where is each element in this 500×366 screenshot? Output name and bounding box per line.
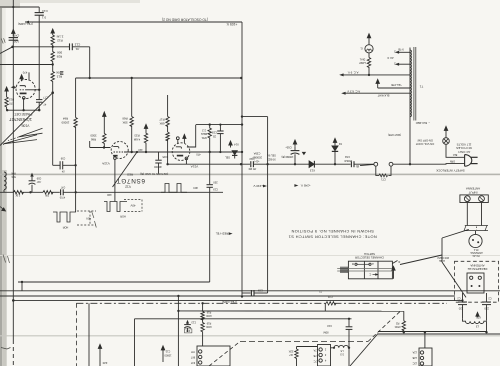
svg-text:1/2-6SN7GT: 1/2-6SN7GT — [9, 117, 32, 122]
antenna receptacle dashed box — [455, 261, 499, 302]
svg-text:50K: 50K — [11, 175, 16, 178]
label V12 — [125, 184, 131, 188]
node junction (295,164.2) — [294, 163, 296, 165]
svg-text:10000: 10000 — [164, 353, 172, 356]
capacitor C9 in rail y164.2 — [250, 161, 252, 167]
label S1 letters — [352, 262, 354, 266]
label YEL-GRN — [18, 22, 33, 26]
label +245V — [300, 183, 310, 187]
label 117 VOLTS — [457, 142, 472, 146]
receptacle body — [467, 273, 484, 293]
waveform sweep sawtooth sketch 1 — [19, 128, 43, 137]
svg-text:0.1: 0.1 — [42, 16, 47, 20]
waveform dashed measure box y210 — [77, 210, 96, 212]
label L3 — [476, 324, 480, 328]
node junction (75.7,192.3) — [75, 191, 77, 193]
svg-text:C47: C47 — [60, 185, 65, 188]
label C2 C2 — [457, 297, 461, 300]
wire vertical x424.9 — [424, 332, 426, 348]
node arrow-up S1 right x393.5 — [392, 266, 395, 272]
svg-text:2.2: 2.2 — [202, 128, 206, 132]
wire rail y290.8 full — [0, 290, 500, 292]
label C39A — [253, 151, 260, 155]
tube V10B cathode bar — [20, 92, 27, 94]
wire interlock to plug y164.2 — [393, 163, 465, 166]
wire dash diagonal right — [368, 312, 400, 342]
wire line y311 corner to R2 — [403, 311, 405, 321]
label 6SN7GT — [116, 177, 145, 184]
S1 knob hatch — [341, 267, 347, 273]
svg-text:C84: C84 — [345, 155, 350, 159]
power plug P2 body — [465, 155, 472, 167]
svg-text:C19: C19 — [213, 187, 218, 191]
svg-text:A: A — [372, 262, 374, 266]
svg-text:L7B: L7B — [313, 354, 318, 357]
svg-text:200UF: 200UF — [344, 159, 352, 163]
tube V10B top pin right — [28, 72, 30, 80]
svg-text:220: 220 — [458, 306, 463, 310]
node junction (242,152) — [241, 151, 243, 153]
svg-text:C13: C13 — [165, 349, 170, 352]
svg-text:.047: .047 — [36, 180, 41, 183]
svg-text:A.C. 6.3 V.: A.C. 6.3 V. — [347, 89, 360, 93]
resistor R51 x209.7 — [208, 125, 211, 152]
label T1 — [419, 84, 423, 88]
tube V21A bottom pin lead — [185, 160, 187, 165]
svg-text:YEL-9TB: YEL-9TB — [391, 83, 402, 87]
svg-text:RECEPTACLE: RECEPTACLE — [468, 267, 488, 271]
label SWITCH — [364, 252, 375, 256]
label R13 — [56, 70, 63, 74]
diode X14 x234.7 — [232, 151, 237, 155]
label 1/2-6SN7GT — [9, 117, 32, 122]
svg-text:RED: RED — [126, 173, 133, 177]
svg-text:R18: R18 — [206, 311, 211, 314]
capacitor C84 in rail y164.2 — [350, 161, 352, 167]
mark bottom-left — [1, 348, 11, 350]
label C77 — [43, 96, 48, 100]
tube V21A cathode bar — [177, 155, 183, 157]
svg-text:ANTENNA: ANTENNA — [466, 187, 480, 191]
label DIAL LAMP — [359, 58, 365, 61]
svg-text:V10B: V10B — [21, 124, 29, 128]
node junction (369,74.9) — [368, 74, 370, 76]
label HOR 2 — [120, 214, 126, 217]
svg-text:X2: X2 — [338, 142, 342, 146]
svg-text:R51: R51 — [201, 136, 207, 140]
node junction (104,147.5) — [103, 146, 105, 148]
label R12 — [56, 34, 63, 38]
interlock left lead — [360, 164, 374, 165]
svg-text:C13: C13 — [191, 321, 196, 324]
node arrow-up x377.7 y79 — [376, 79, 379, 88]
label R17 — [159, 117, 165, 121]
node arrow-up x104.3 y112 — [103, 112, 106, 134]
svg-text:68K: 68K — [159, 121, 164, 125]
tube V21A plate lead to box — [187, 125, 196, 147]
svg-text:6T3: 6T3 — [476, 316, 481, 320]
svg-text:470K: 470K — [394, 325, 400, 329]
svg-text:R17: R17 — [159, 117, 165, 121]
node junction (220.4,124.6) — [219, 124, 221, 126]
wire line y310.9 — [178, 310, 403, 312]
node junction (146,152) — [145, 151, 147, 153]
node junction (242,78) — [240, 77, 242, 79]
svg-text:← BLK-RED: ← BLK-RED — [416, 121, 431, 125]
T3 pin circles — [319, 348, 322, 351]
label 9-7B — [398, 48, 404, 52]
resistor R horizontal 1 on y192.3 — [14, 191, 24, 194]
handwriting marks low — [3, 255, 10, 264]
twin-lead ribbon dashed — [465, 225, 488, 227]
svg-text:40000: 40000 — [154, 165, 162, 169]
svg-text:470K: 470K — [56, 70, 63, 74]
label C99 — [60, 157, 65, 160]
tube V10B grid — [20, 89, 27, 91]
svg-text:C12: C12 — [74, 42, 80, 46]
wire vertical x13.3 dashed tail — [12, 340, 14, 365]
capacitor C77 on x39.2 — [36, 99, 42, 101]
tube V12A grid dashes on rail — [114, 151, 125, 153]
label AC 9 — [387, 56, 394, 60]
resistor R15 x6.6 — [5, 93, 8, 110]
resistor R12 x52.7 — [51, 35, 54, 47]
label RED-YEL — [215, 232, 228, 236]
label +230V — [263, 185, 267, 188]
T3 pin digits — [324, 347, 326, 350]
S1 contact B-A arrow — [357, 263, 370, 265]
S1 inner dividers — [363, 261, 365, 279]
diode X13 in rail y164.2 — [309, 161, 314, 168]
wire y46.8 cap to corner x91 — [72, 46, 89, 48]
label L5 — [340, 349, 343, 353]
wire vertical x267.6 — [267, 117, 269, 293]
waveform sweep sawtooth sketch 2 — [4, 135, 38, 144]
svg-text:60 CYCLES: 60 CYCLES — [456, 146, 472, 150]
svg-text:SHOWN IN CHANNEL NO. 5 POSITIO: SHOWN IN CHANNEL NO. 5 POSITION — [291, 229, 374, 234]
label L7 windings — [313, 348, 318, 351]
svg-text:C63+: C63+ — [285, 146, 292, 150]
svg-text:220: 220 — [484, 306, 489, 310]
waveform pulses x104-127 y200 — [104, 202, 127, 212]
label R15 — [9, 97, 14, 101]
svg-text:40V: 40V — [130, 203, 135, 207]
svg-text:DIAL: DIAL — [359, 58, 365, 61]
capacitor C13b x187.5 — [186, 320, 189, 324]
svg-text:25: 25 — [213, 134, 216, 138]
svg-text:R68: R68 — [122, 117, 128, 121]
label C53 — [212, 130, 217, 134]
svg-text:C39A: C39A — [253, 151, 260, 155]
label BLK-RED — [416, 121, 431, 125]
svg-text:50K: 50K — [57, 50, 62, 54]
svg-text:A.C. 9 V.: A.C. 9 V. — [347, 71, 358, 75]
tube V10B plate lead right to x39.2 — [27, 89, 40, 91]
wire vertical x52.7 extension — [52, 93, 54, 166]
svg-text:.05 MF: .05 MF — [248, 167, 257, 171]
svg-text:270: 270 — [9, 101, 14, 105]
label 40V waveform2 — [130, 203, 135, 207]
capacitor C65 x158.5 below rail152 — [158, 152, 160, 160]
label A4R — [107, 193, 112, 196]
svg-text:X13: X13 — [310, 169, 316, 173]
capacitor C53 x220.4 — [219, 125, 221, 131]
tube V21A grid dashes — [175, 151, 186, 153]
svg-text:L3: L3 — [476, 324, 480, 328]
label 220 caps — [458, 306, 463, 310]
label 220 bottom arrow — [102, 361, 107, 365]
svg-text:SAFETY INTERLOCK: SAFETY INTERLOCK — [436, 168, 465, 172]
svg-text:SEL: SEL — [224, 155, 230, 159]
T2 pin circles — [199, 350, 202, 353]
wire box edge x134.5 — [134, 319, 136, 366]
svg-text:C71: C71 — [381, 178, 386, 182]
label R23 — [134, 134, 140, 138]
wire diagonal solid bottom — [350, 334, 378, 366]
S1 contact C arrow — [373, 274, 378, 276]
svg-text:T1: T1 — [419, 84, 423, 88]
node junction (349,347.8) — [348, 347, 350, 349]
svg-text:100MF(B): 100MF(B) — [281, 155, 293, 159]
terminal screw left — [464, 196, 470, 202]
node junction (220.4,152) — [219, 151, 221, 153]
svg-text:INPUT: INPUT — [468, 190, 477, 194]
svg-text:C77: C77 — [43, 96, 48, 100]
svg-text:.01: .01 — [75, 47, 80, 51]
svg-text:R28: R28 — [56, 54, 62, 58]
svg-text:L7A: L7A — [313, 348, 318, 351]
svg-text:X9 B23: X9 B23 — [267, 158, 276, 162]
wire C80b bottom to rail — [486, 321, 488, 332]
svg-text:100: 100 — [14, 40, 19, 44]
svg-text:6SN7GT: 6SN7GT — [116, 177, 145, 184]
svg-text:C39: C39 — [258, 289, 263, 293]
svg-text:220: 220 — [102, 361, 107, 365]
node arrow-up x230.5 y141 — [229, 141, 232, 148]
IF transformer box T4 right — [419, 348, 432, 366]
node junction (131.7,152) — [131, 151, 133, 153]
node junction (349,318.8) — [348, 318, 350, 320]
svg-text:(TO OSCILLATOR GRID NO 2): (TO OSCILLATOR GRID NO 2) — [162, 18, 208, 22]
svg-text:(YEL-GRN): (YEL-GRN) — [222, 300, 237, 304]
wire switch to plug BLK — [446, 144, 465, 157]
svg-text:86T: 86T — [190, 355, 195, 358]
wire branch y116.6 — [242, 116, 268, 118]
svg-text:R7: R7 — [289, 353, 293, 357]
capacitor plates small x61 y71-77 — [60, 71, 63, 73]
wire vertical x178.4 — [177, 296, 179, 366]
label +105V — [226, 22, 237, 26]
tube V12A grid hook — [113, 147, 119, 149]
wire AC6.3V line y93.2 — [345, 92, 411, 94]
resistor R19 x202.6 — [201, 319, 204, 347]
label X13 — [310, 169, 316, 173]
resistor R2 x403.8 — [402, 321, 405, 332]
svg-text:PHASE DET.: PHASE DET. — [14, 112, 33, 116]
svg-text:PLUG: PLUG — [472, 254, 479, 258]
svg-text:40V: 40V — [86, 216, 91, 220]
svg-text:V12: V12 — [125, 184, 131, 188]
svg-text:R2: R2 — [395, 321, 399, 325]
label C69 — [36, 176, 41, 179]
label C93 — [249, 157, 254, 161]
svg-text:NOTE: CHANNEL SELECTOR SWITCH: NOTE: CHANNEL SELECTOR SWITCH S1 — [288, 235, 376, 240]
handwriting marks mid — [92, 211, 97, 228]
scan border left dark — [0, 0, 2, 366]
node junction (137,152) — [136, 151, 138, 153]
antenna input terminal strip — [460, 195, 488, 203]
waveform pulses mid-left y210 — [53, 212, 76, 222]
svg-text:SEL 9A: SEL 9A — [267, 154, 276, 158]
label 410 — [138, 148, 143, 152]
svg-text:22K: 22K — [288, 349, 293, 353]
tube V12A cathode bar — [113, 155, 117, 157]
svg-text:10000: 10000 — [61, 121, 69, 125]
svg-text:R46: R46 — [11, 171, 16, 174]
wire AC9V line y74.9 — [343, 74, 411, 76]
svg-text:RED-YEL: RED-YEL — [215, 232, 228, 236]
svg-text:2000MF: 2000MF — [252, 155, 262, 159]
svg-text:X14: X14 — [234, 143, 239, 147]
capacitor C10 x349 — [348, 319, 350, 327]
svg-text:3.3K: 3.3K — [15, 194, 20, 197]
svg-text:94T: 94T — [190, 361, 195, 364]
node junction (7.2,110.2) — [6, 109, 8, 111]
label R6B — [122, 117, 128, 121]
svg-text:ON-OFF SW.: ON-OFF SW. — [417, 138, 433, 142]
node junction (52.7,46.8) — [52, 46, 54, 48]
capacitor C19 x209.7 — [207, 184, 213, 186]
antenna plug PL1 — [469, 234, 482, 247]
twin lead wires down — [466, 203, 468, 226]
svg-text:1000: 1000 — [206, 325, 212, 328]
label C71 — [381, 178, 386, 182]
capacitor C99 in jog line — [59, 161, 61, 169]
transformer T1 core bars — [413, 47, 415, 121]
svg-text:470: 470 — [22, 71, 27, 75]
label AC 9V line — [347, 71, 358, 75]
wire rail y78 — [76, 77, 241, 79]
svg-text:R12: R12 — [57, 39, 63, 43]
svg-text:GRN: GRN — [450, 160, 456, 163]
resistor R32 in dash rail — [326, 302, 336, 305]
handwriting marks left top — [1, 38, 5, 43]
wire rail y296 — [0, 295, 455, 297]
wire stub x75.6 to waveform — [75, 192, 77, 212]
diagonal wire rail152 to waveform — [113, 152, 138, 187]
node junction (462.5,300.4) — [461, 299, 463, 301]
label GRN — [450, 160, 456, 163]
label C84 — [345, 155, 350, 159]
wire tap x325.3 — [324, 303, 326, 311]
node junction (424.9,332.2) — [424, 331, 426, 333]
tube V12A bottom pin circle — [114, 157, 117, 160]
label retrace note — [140, 172, 169, 176]
label X12 — [338, 142, 342, 146]
tube V21A envelope (dashed) — [172, 143, 190, 161]
wire diagonal from (52.7,92.7) — [0, 93, 53, 146]
wire rail y164.2 mid part — [253, 163, 308, 165]
label RED — [126, 173, 133, 177]
capacitor C80b — [486, 293, 488, 302]
node arrow-up capacitor C63 x295 — [293, 140, 296, 147]
node junction (209.7,124.6) — [209, 123, 211, 125]
svg-text:40V: 40V — [193, 186, 198, 190]
node arrow-up x52.7 y29 — [51, 29, 54, 35]
waveform pulses x161-190 y183 — [161, 184, 187, 193]
wire box top y124.6 — [196, 124, 242, 126]
wire dash horizontal y341.5 — [240, 341, 368, 343]
wire bottom rail y331.5 — [378, 331, 487, 333]
wire S1 right lead down — [393, 273, 395, 279]
label 300 OHM LINE — [437, 256, 449, 260]
resistor R18 x202.6 — [201, 303, 204, 320]
wire dash-dot rail y303.3 — [76, 302, 326, 304]
label BLK-WHT — [377, 94, 389, 98]
label rail192 R values — [15, 194, 20, 197]
node junction (52.7,92.7) — [51, 91, 54, 94]
svg-text:D: D — [398, 260, 400, 264]
node arrow-up x163 y345 — [161, 346, 164, 362]
label L2 windings — [412, 350, 417, 353]
wire rail y300.4 — [13, 299, 462, 301]
label C10 — [327, 324, 332, 328]
interlock bypass U with capacitor C71 — [376, 166, 379, 175]
node junction (30.5,192.3) — [29, 191, 31, 193]
label C12 — [74, 42, 80, 46]
resistor R27 x296.5 — [296, 347, 298, 350]
svg-text:3300: 3300 — [90, 134, 97, 138]
node junction (335,164.2) — [334, 163, 336, 165]
polarity mark near C63 — [302, 152, 306, 155]
label C13 — [42, 9, 48, 13]
svg-text:ANTENNA: ANTENNA — [470, 264, 484, 268]
tube V10B plate hook — [20, 86, 26, 88]
svg-text:BLK-WHT: BLK-WHT — [377, 94, 389, 98]
pilot lamp I1 — [365, 45, 373, 53]
label R18 — [206, 311, 211, 314]
label SAFETY INTERLOCK — [436, 168, 465, 172]
capacitor C63 electrolytic x295 — [294, 147, 296, 150]
capacitor C13 in x39.2 line — [38, 7, 40, 12]
label oscillator note — [162, 18, 208, 22]
label PL1 — [473, 248, 478, 252]
svg-text:HOR: HOR — [63, 225, 69, 228]
label BLK — [452, 153, 457, 156]
label R28 — [57, 50, 62, 54]
safety interlock contact left — [374, 162, 378, 166]
wire vertical x13.3 full height — [12, 0, 14, 340]
svg-text:R64: R64 — [62, 117, 68, 121]
label AC 6.3V — [347, 89, 360, 93]
wire vertical x89.7 y141-147.5 — [89, 141, 91, 148]
resistor R horizontal 2 on y192.3 — [43, 191, 53, 194]
label C63 — [285, 146, 292, 150]
label R19 — [206, 321, 211, 324]
svg-text:C: C — [369, 272, 371, 276]
label YEL-GRN dash — [222, 300, 237, 304]
node junction (210,152) — [209, 151, 211, 153]
resistor R23 x146 — [144, 131, 147, 152]
wire top stub y7 — [0, 6, 39, 8]
label ANTENNA INPUT — [466, 187, 480, 191]
label V10B — [21, 124, 29, 128]
svg-text:117 VOLTS: 117 VOLTS — [457, 142, 472, 146]
label 40V waveform1 — [86, 216, 91, 220]
label C13b — [191, 321, 196, 324]
label I1 — [360, 47, 363, 51]
svg-text:ON VOL CONT: ON VOL CONT — [415, 142, 434, 146]
